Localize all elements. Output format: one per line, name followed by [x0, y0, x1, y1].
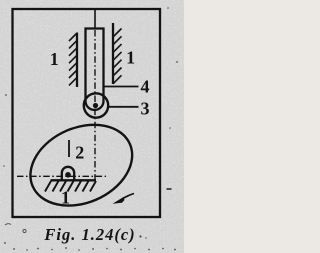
svg-text:2: 2 — [75, 143, 84, 163]
svg-text:1: 1 — [126, 48, 135, 68]
svg-text:Fig. 1.24(c): Fig. 1.24(c) — [43, 225, 135, 244]
svg-text:4: 4 — [141, 77, 150, 97]
svg-text:1: 1 — [50, 49, 59, 69]
svg-text:1: 1 — [61, 188, 70, 208]
svg-text:3: 3 — [141, 99, 150, 119]
